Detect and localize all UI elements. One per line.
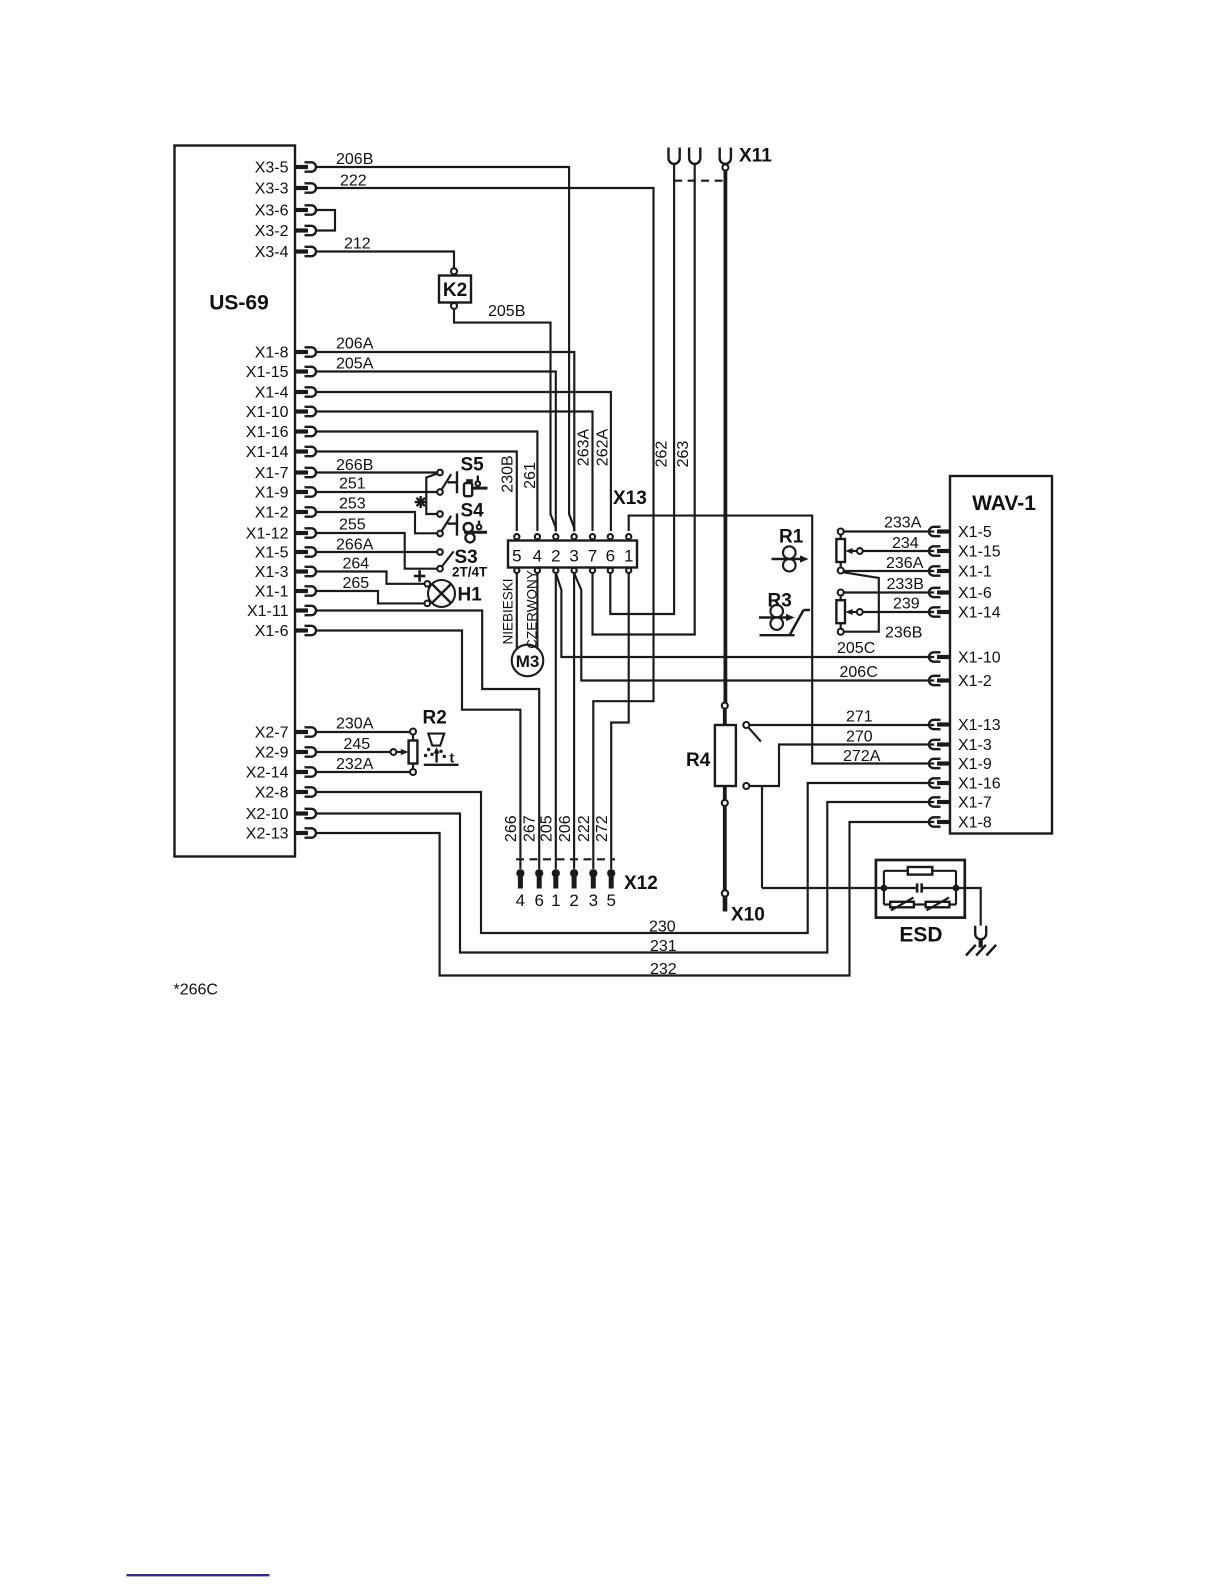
icon R2 heated washer jet	[424, 734, 459, 766]
svg-text:261: 261	[522, 462, 539, 489]
wire 230: US-69 X2-8 to WAV-1 X1-16	[316, 783, 934, 933]
wire 265: US-69 X1-1 to lamp H1	[316, 591, 425, 603]
svg-text:272: 272	[594, 815, 611, 842]
R4 switch lever	[748, 727, 761, 741]
svg-text:270: 270	[846, 729, 873, 746]
wire 212: US-69 X3-4 to relay K2	[316, 252, 454, 269]
svg-text:266A: 266A	[336, 537, 374, 554]
svg-text:206B: 206B	[336, 151, 373, 168]
pin X1-6 of US-69	[255, 623, 316, 640]
svg-text:X1-9: X1-9	[255, 485, 289, 502]
wire 253: US-69 X1-2 to switch S4	[316, 512, 437, 533]
svg-text:X1-9: X1-9	[958, 756, 992, 773]
svg-text:5: 5	[606, 891, 615, 910]
wire 236A: R1 to WAV-1 X1-1	[844, 570, 935, 572]
pin X3-3 of US-69	[255, 181, 316, 198]
svg-text:205C: 205C	[837, 640, 875, 657]
svg-text:X11: X11	[739, 146, 772, 167]
svg-text:236B: 236B	[885, 625, 922, 642]
svg-text:253: 253	[339, 496, 366, 513]
node R4 bottom	[722, 800, 728, 806]
svg-text:X1-2: X1-2	[255, 505, 289, 522]
ground terminal	[975, 926, 986, 940]
wire 245: US-69 X2-9 to R2 wiper	[316, 751, 391, 753]
svg-text:X3-3: X3-3	[255, 181, 289, 198]
junction dot ESD right	[953, 885, 960, 892]
svg-text:M3: M3	[516, 652, 540, 671]
ESD capacitor	[917, 883, 922, 892]
wire R4 branch to ESD	[761, 786, 763, 888]
node R1 bottom	[838, 568, 844, 574]
svg-text:245: 245	[344, 736, 371, 753]
pin X1-15 of WAV-1	[929, 544, 1001, 561]
switch S4	[442, 501, 485, 536]
pin X2-8 of US-69	[255, 785, 316, 802]
node S4 contact lower	[437, 531, 443, 537]
X12 pin 5 (net 272)	[606, 869, 615, 910]
pin X1-3 of US-69	[255, 564, 316, 581]
pin X1-3 of WAV-1	[929, 737, 992, 754]
icon S5 washer pump	[464, 476, 488, 497]
wire X13 pin 5 to motor M3 (niebieski)	[516, 573, 518, 649]
svg-text:X2-7: X2-7	[255, 725, 289, 742]
icon S4 wiper	[464, 521, 487, 543]
X11 terminal 3	[720, 148, 731, 164]
svg-text:2: 2	[551, 547, 560, 566]
svg-text:*266C: *266C	[174, 982, 218, 999]
pin X1-11 of US-69	[247, 603, 316, 620]
svg-text:X2-9: X2-9	[255, 745, 289, 762]
svg-text:X1-7: X1-7	[958, 795, 992, 812]
svg-text:X10: X10	[731, 905, 765, 926]
node R3 bottom	[838, 629, 844, 635]
svg-text:206A: 206A	[336, 336, 374, 353]
pin X1-12 of US-69	[246, 526, 316, 543]
svg-text:WAV-1: WAV-1	[972, 492, 1036, 515]
svg-text:US-69: US-69	[209, 292, 269, 315]
icon R1 roller	[772, 527, 809, 572]
svg-text:X1-14: X1-14	[958, 605, 1001, 622]
node H1 terminal upper	[425, 581, 431, 587]
svg-text:233B: 233B	[887, 576, 924, 593]
node H1 terminal lower	[425, 601, 431, 607]
svg-text:263: 263	[675, 441, 692, 468]
X13 pin 1	[624, 534, 633, 573]
svg-text:X1-15: X1-15	[958, 544, 1001, 561]
junction dot ESD left	[881, 885, 888, 892]
svg-text:3: 3	[589, 891, 598, 910]
svg-text:263A: 263A	[576, 428, 593, 466]
svg-text:X1-15: X1-15	[246, 364, 289, 381]
X13 pin 7	[588, 534, 597, 573]
svg-text:1: 1	[551, 891, 560, 910]
svg-text:206C: 206C	[840, 664, 878, 681]
switch S5	[442, 455, 485, 494]
svg-text:R2: R2	[423, 708, 447, 729]
pin X3-4 of US-69	[255, 244, 316, 261]
pin X1-9 of US-69	[255, 485, 316, 502]
ECU box US-69	[175, 146, 296, 857]
svg-text:X1-1: X1-1	[958, 564, 992, 581]
wire 230B: US-69 X1-14 to X13 pin 5	[316, 452, 517, 532]
X12 dashed connector line	[516, 858, 615, 860]
svg-text:X1-7: X1-7	[255, 465, 289, 482]
wire 266A: US-69 X1-5 to switch S3	[316, 551, 437, 553]
pin X2-7 of US-69	[255, 725, 316, 742]
svg-text:265: 265	[343, 575, 370, 592]
wire R4 top stub	[723, 709, 727, 725]
svg-text:271: 271	[846, 709, 873, 726]
svg-text:X1-1: X1-1	[255, 584, 289, 601]
switch S3	[442, 547, 488, 580]
X13 pin 2	[551, 534, 560, 573]
svg-text:X1-2: X1-2	[958, 673, 992, 690]
wire 230A: US-69 X2-7 to resistor R2	[316, 731, 410, 733]
svg-text:X1-6: X1-6	[958, 585, 992, 602]
R1 wiper arrow	[845, 548, 862, 554]
wire 262A: US-69 X1-4 to X13 pin 6	[316, 392, 611, 531]
svg-text:t: t	[450, 750, 455, 766]
X13 pin 5	[512, 534, 521, 573]
wire 205B: relay K2 to X13 pin 2	[454, 309, 556, 532]
asterisk mark	[415, 496, 427, 508]
svg-text:5: 5	[512, 547, 521, 566]
node R1 top	[838, 529, 844, 535]
wire R4 bottom to X10	[723, 786, 727, 800]
svg-text:X2-13: X2-13	[246, 826, 289, 843]
wire 263A: US-69 X1-10 to X13 pin 7	[316, 412, 593, 532]
X10 terminal stub	[723, 897, 728, 912]
wire 232A: US-69 X2-14 to resistor R2	[316, 771, 410, 773]
wire 262: X13 pin 6 to connector X11	[610, 164, 674, 614]
wire 251: US-69 X1-9 to switch S5	[316, 491, 437, 493]
svg-text:272A: 272A	[843, 748, 881, 765]
svg-text:S4: S4	[461, 501, 485, 522]
svg-text:6: 6	[534, 891, 543, 910]
svg-text:212: 212	[344, 236, 371, 253]
node S3 contact lower	[437, 566, 443, 572]
wire 206B: US-69 X3-5 to X13 pin 3	[316, 167, 574, 532]
X13 pin 6	[606, 534, 615, 573]
X12 pin 4 (net 266)	[516, 869, 525, 910]
wire gang link S5-S4	[426, 474, 437, 515]
svg-text:232: 232	[650, 961, 677, 978]
resistor R1 (sensor)	[836, 535, 845, 568]
svg-text:X1-4: X1-4	[255, 385, 289, 402]
motor M3	[512, 645, 544, 677]
wire 270: R4 to WAV-1 X1-3	[749, 745, 934, 787]
ESD varistor 2	[926, 898, 950, 911]
pin X1-9 of WAV-1	[929, 756, 992, 773]
svg-text:232A: 232A	[336, 756, 374, 773]
svg-text:X2-8: X2-8	[255, 785, 289, 802]
pin X1-2 of WAV-1	[929, 673, 992, 690]
svg-text:3: 3	[569, 547, 578, 566]
svg-text:NIEBIESKI: NIEBIESKI	[501, 578, 516, 644]
wire X13 pin 4 to motor M3 (czerwony)	[536, 573, 538, 648]
X12 pin 1 (net 205)	[551, 869, 560, 910]
pin X1-13 of WAV-1	[929, 717, 1001, 734]
svg-text:X1-3: X1-3	[958, 737, 992, 754]
wire 233B: R3 to WAV-1 X1-6	[844, 591, 935, 593]
node R4 contact top	[743, 722, 749, 728]
pin X1-8 of WAV-1	[929, 815, 992, 832]
svg-text:ESD: ESD	[899, 924, 942, 947]
svg-text:X3-5: X3-5	[255, 160, 289, 177]
svg-text:X1-5: X1-5	[255, 545, 289, 562]
wire 205A: US-69 X1-15 to X13 pin 2	[316, 372, 556, 532]
svg-text:266: 266	[503, 815, 520, 842]
svg-text:7: 7	[588, 547, 597, 566]
wire 233A: R1 to WAV-1 X1-5	[844, 530, 935, 532]
module box WAV-1	[950, 476, 1052, 834]
pin X1-5 of WAV-1	[929, 524, 992, 541]
relay K2	[439, 276, 471, 303]
jumper wire X3-6 to X3-2	[316, 210, 335, 231]
svg-text:X13: X13	[613, 488, 647, 509]
svg-text:205B: 205B	[488, 303, 525, 320]
lamp H1	[428, 580, 482, 607]
svg-text:X3-2: X3-2	[255, 223, 289, 240]
node R2 top	[410, 729, 416, 735]
wire 271: R4 to WAV-1 X1-13	[749, 724, 934, 726]
pin X1-15 of US-69	[246, 364, 316, 381]
svg-text:230A: 230A	[336, 716, 374, 733]
wire 261: US-69 X1-16 to X13 pin 4	[316, 432, 537, 532]
node K2 bottom terminal	[451, 303, 457, 309]
node R4 top	[722, 703, 728, 709]
thick supply wire X11 to R4 and X10	[724, 171, 728, 703]
pin X1-14 of WAV-1	[929, 605, 1001, 622]
wire ESD main line	[762, 888, 981, 926]
resistor R3 (sensor)	[836, 596, 845, 629]
svg-text:X1-11: X1-11	[247, 603, 289, 620]
pin X2-9 of US-69	[255, 745, 316, 762]
wire 231: US-69 X2-10 to WAV-1 X1-7	[316, 802, 934, 953]
svg-text:H1: H1	[458, 585, 483, 606]
svg-text:S5: S5	[461, 455, 485, 476]
svg-text:X1-6: X1-6	[255, 623, 289, 640]
X12 pin 2 (net 206)	[569, 869, 578, 910]
footer link line	[127, 1574, 270, 1576]
X11 terminal 1	[669, 148, 680, 164]
svg-text:X1-13: X1-13	[958, 717, 1001, 734]
R3 wiper arrow	[845, 609, 862, 615]
svg-text:X3-4: X3-4	[255, 244, 289, 261]
pin X2-13 of US-69	[246, 826, 316, 843]
svg-text:234: 234	[892, 535, 919, 552]
ESD internal wiring	[884, 871, 956, 905]
wire 222: US-69 X3-3 down to X12 pin 3	[316, 188, 654, 869]
svg-text:X1-12: X1-12	[246, 526, 289, 543]
node X11 terminal 3	[722, 165, 728, 171]
svg-text:233A: 233A	[884, 515, 922, 532]
wire 272A: X13 pin 1 via R1/R3 to WAV-1 X1-9	[629, 516, 935, 764]
pin X1-16 of WAV-1	[929, 776, 1001, 793]
pin X1-4 of US-69	[255, 385, 316, 402]
X13 pin 4	[533, 534, 542, 573]
ESD varistor 1	[890, 898, 914, 911]
node S3 contact upper	[437, 549, 443, 555]
svg-text:264: 264	[343, 556, 370, 573]
pin X1-5 of US-69	[255, 545, 316, 562]
ground symbol	[966, 938, 996, 956]
svg-text:CZERWONY: CZERWONY	[524, 570, 539, 649]
svg-text:266B: 266B	[336, 457, 373, 474]
svg-text:2: 2	[569, 891, 578, 910]
pin X1-2 of US-69	[255, 505, 316, 522]
svg-text:X2-14: X2-14	[246, 765, 289, 782]
node R2 bottom	[410, 769, 416, 775]
svg-text:X1-8: X1-8	[958, 815, 992, 832]
pin X3-2 of US-69	[255, 223, 316, 240]
plus polarity mark	[414, 570, 426, 582]
svg-text:X12: X12	[624, 873, 658, 894]
svg-text:X1-10: X1-10	[246, 404, 289, 421]
wire 272: X13 pin 1 down to X12 pin 5	[611, 573, 629, 869]
pin X1-10 of US-69	[246, 404, 316, 421]
wire 236B: R1 bottom to R3 bottom	[843, 572, 878, 631]
pin X3-6 of US-69	[255, 203, 316, 220]
svg-text:4: 4	[533, 547, 542, 566]
pin X1-1 of US-69	[255, 584, 316, 601]
pin X1-16 of US-69	[246, 424, 316, 441]
wire 267: US-69 X1-11 to X12 pin 6	[316, 611, 539, 869]
ESD resistor	[908, 867, 933, 875]
svg-text:6: 6	[606, 547, 615, 566]
wire 206A: US-69 X1-8 to X13 pin 3	[316, 352, 574, 531]
X12 pin 3 (net 222)	[589, 869, 598, 910]
svg-text:X1-16: X1-16	[246, 424, 289, 441]
svg-text:222: 222	[340, 172, 367, 189]
icon R3 roller with ramp	[759, 591, 810, 636]
pin X1-8 of US-69	[255, 345, 316, 362]
svg-text:230: 230	[649, 919, 676, 936]
wire 205C: X13 pin 2 to WAV-1 X1-10	[556, 573, 934, 657]
svg-text:206: 206	[557, 815, 574, 842]
svg-text:X1-8: X1-8	[255, 345, 289, 362]
wire 266B: US-69 X1-7 to switch S5	[316, 471, 437, 473]
wire 234: R1 wiper to WAV-1 X1-15	[863, 550, 935, 552]
pin X1-7 of US-69	[255, 465, 316, 482]
pin X2-10 of US-69	[246, 806, 316, 823]
svg-text:X3-6: X3-6	[255, 203, 289, 220]
svg-text:K2: K2	[443, 280, 467, 301]
node S5 contact upper	[437, 470, 443, 476]
pin X1-14 of US-69	[246, 444, 316, 461]
connector X13	[508, 541, 637, 568]
wire 266: US-69 X1-6 to X12 pin 4	[316, 631, 520, 869]
pin X1-6 of WAV-1	[929, 585, 992, 602]
node X10 terminal	[722, 890, 728, 896]
svg-text:X1-5: X1-5	[958, 524, 992, 541]
pin X2-14 of US-69	[246, 765, 316, 782]
wire 206C: X13 pin 3 to WAV-1 X1-2	[574, 573, 934, 681]
pin X1-10 of WAV-1	[929, 650, 1001, 667]
svg-text:2T/4T: 2T/4T	[452, 565, 488, 580]
R2 wiper arrow	[391, 749, 409, 755]
svg-text:205: 205	[539, 815, 556, 842]
svg-text:X1-16: X1-16	[958, 776, 1001, 793]
svg-text:230B: 230B	[500, 455, 517, 492]
wire 205: X13 pin 2 down to X12 pin 1	[555, 573, 557, 869]
svg-text:267: 267	[522, 815, 539, 842]
wire 232: US-69 X2-13 to WAV-1 X1-8	[316, 822, 934, 976]
node K2 top terminal	[451, 268, 457, 274]
svg-text:236A: 236A	[886, 555, 924, 572]
svg-text:222: 222	[576, 815, 593, 842]
wire 264: US-69 X1-3 to lamp H1	[316, 572, 425, 584]
wire 263: X13 pin 7 to connector X11	[593, 164, 695, 634]
node R4 contact bottom	[743, 783, 749, 789]
resistor R4	[686, 725, 736, 786]
svg-text:231: 231	[650, 938, 677, 955]
svg-text:262A: 262A	[595, 428, 612, 466]
svg-text:R4: R4	[686, 750, 711, 771]
wire 239: R3 wiper to WAV-1 X1-14	[863, 611, 935, 613]
resistor R2	[409, 708, 447, 770]
svg-text:1: 1	[624, 547, 633, 566]
pin X1-1 of WAV-1	[929, 564, 992, 581]
X11 dashed connector line	[674, 180, 725, 182]
svg-text:251: 251	[339, 476, 366, 493]
wire 206: X13 pin 3 down to X12 pin 2	[573, 573, 575, 869]
svg-text:239: 239	[893, 596, 920, 613]
X11 terminal 2	[689, 148, 700, 164]
svg-text:262: 262	[653, 441, 670, 468]
X13 pin 3	[569, 534, 578, 573]
svg-text:R1: R1	[779, 527, 804, 548]
pin X3-5 of US-69	[255, 160, 316, 177]
svg-text:4: 4	[516, 891, 525, 910]
X12 pin 6 (net 267)	[534, 869, 543, 910]
node R3 top	[838, 590, 844, 596]
svg-text:X1-14: X1-14	[246, 444, 289, 461]
ESD protection module	[876, 860, 965, 947]
node S5 contact lower	[437, 489, 443, 495]
pin X1-7 of WAV-1	[929, 795, 992, 812]
svg-text:205A: 205A	[336, 356, 374, 373]
svg-text:X2-10: X2-10	[246, 806, 289, 823]
svg-text:255: 255	[339, 517, 366, 534]
wire 255: US-69 X1-12 to switch S3	[316, 533, 437, 569]
svg-text:X1-10: X1-10	[958, 650, 1001, 667]
node S4 contact upper	[437, 511, 443, 517]
svg-text:X1-3: X1-3	[255, 564, 289, 581]
